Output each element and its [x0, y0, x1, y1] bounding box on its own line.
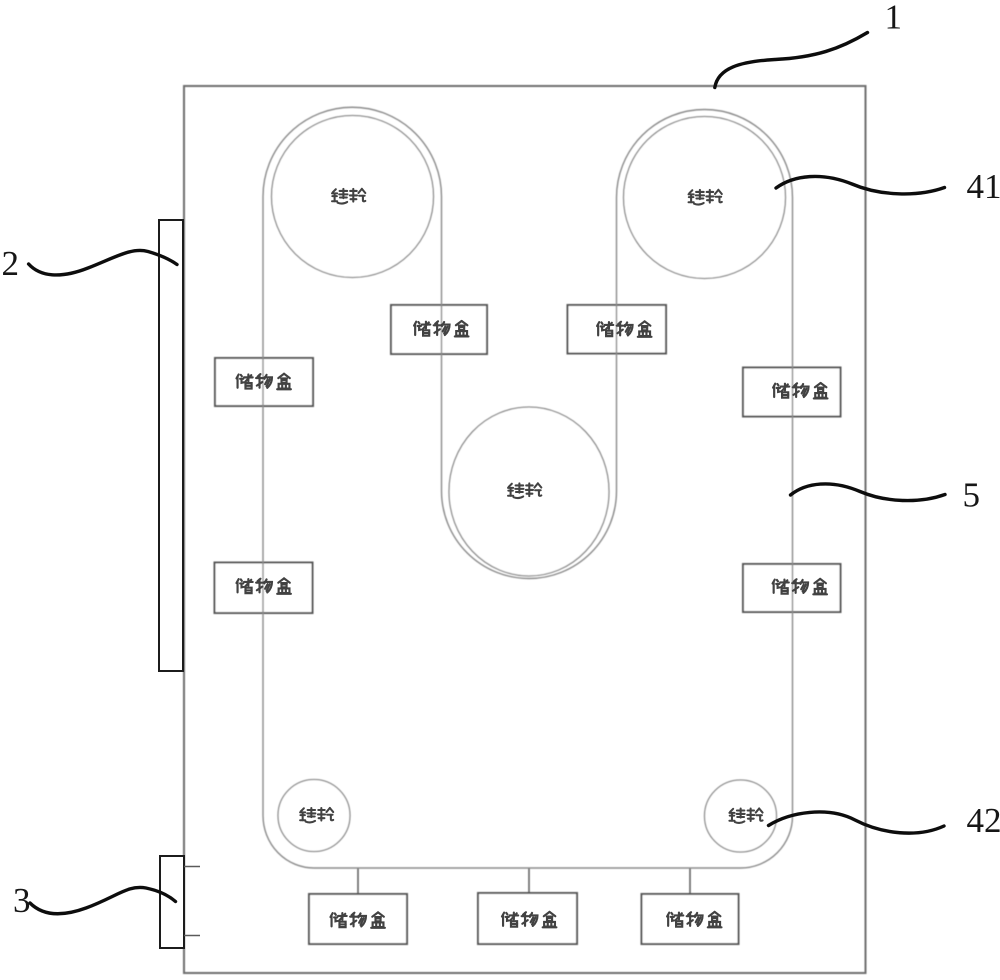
svg-text:2: 2	[2, 244, 20, 283]
svg-text:5: 5	[963, 476, 981, 515]
svg-text:41: 41	[967, 167, 1000, 206]
svg-text:1: 1	[885, 0, 903, 37]
svg-text:42: 42	[967, 801, 1000, 840]
svg-text:3: 3	[13, 881, 31, 920]
